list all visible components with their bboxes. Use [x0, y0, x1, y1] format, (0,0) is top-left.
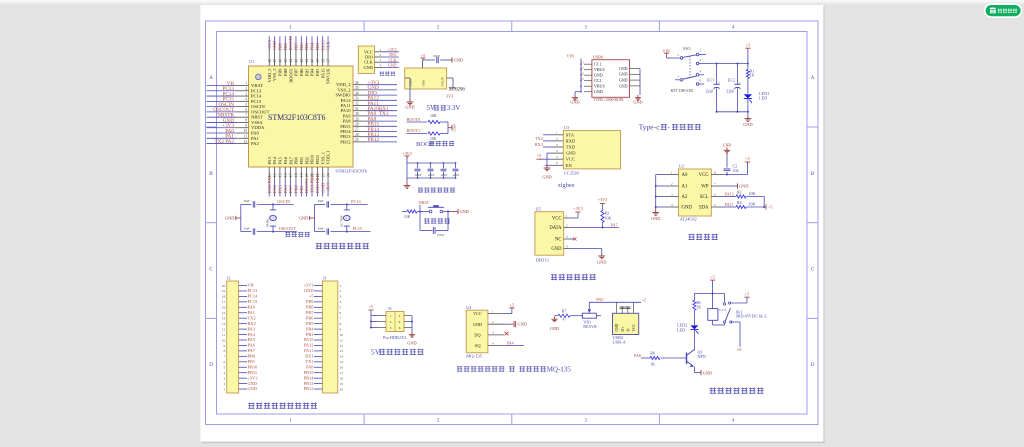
- svg-text:GND: GND: [405, 105, 414, 110]
- svg-text:U2: U2: [679, 164, 684, 169]
- svg-text:40: 40: [311, 59, 315, 63]
- svg-text:GND: GND: [460, 209, 469, 214]
- svg-text:9: 9: [245, 124, 247, 128]
- svg-text:6: 6: [223, 360, 225, 364]
- svg-text:GND: GND: [619, 66, 628, 71]
- svg-text:10K: 10K: [749, 202, 756, 207]
- svg-text:GND: GND: [682, 206, 693, 211]
- svg-text:15: 15: [340, 360, 344, 364]
- svg-text:GND: GND: [566, 151, 576, 156]
- svg-text:PB4: PB4: [310, 42, 315, 51]
- svg-text:17: 17: [222, 300, 226, 304]
- svg-text:VDDA: VDDA: [251, 125, 265, 130]
- svg-text:100nF: 100nF: [437, 234, 445, 237]
- svg-text:16: 16: [222, 306, 226, 310]
- svg-text:PB11: PB11: [248, 370, 258, 375]
- svg-text:SRD-05VDC-SL-C: SRD-05VDC-SL-C: [736, 314, 768, 319]
- svg-text:38: 38: [321, 59, 325, 63]
- svg-text:A: A: [811, 76, 815, 81]
- svg-text:8MHz: 8MHz: [266, 218, 270, 227]
- svg-text:18: 18: [295, 173, 299, 177]
- svg-text:VCC: VCC: [699, 173, 709, 178]
- svg-text:15: 15: [279, 173, 283, 177]
- svg-text:1: 1: [340, 284, 342, 288]
- svg-text:GND: GND: [597, 260, 606, 265]
- svg-text:LED: LED: [677, 328, 685, 333]
- svg-text:CC1: CC1: [594, 62, 601, 67]
- svg-text:37: 37: [327, 59, 331, 63]
- svg-text:3.3V: 3.3V: [447, 105, 461, 112]
- svg-text:17: 17: [289, 173, 293, 177]
- svg-text:PB6: PB6: [299, 42, 304, 51]
- svg-text:BOOT1: BOOT1: [407, 128, 421, 133]
- svg-text:A: A: [209, 76, 213, 81]
- svg-text:5V: 5V: [427, 105, 435, 112]
- svg-text:PA1: PA1: [251, 136, 259, 141]
- svg-text:RXD: RXD: [566, 138, 576, 143]
- svg-text:zigbee: zigbee: [558, 182, 575, 189]
- svg-text:+5: +5: [421, 53, 425, 58]
- svg-text:3: 3: [245, 92, 247, 96]
- svg-text:PA5: PA5: [596, 297, 603, 302]
- svg-text:SWCLK: SWCLK: [326, 68, 331, 84]
- svg-text:PA7: PA7: [248, 348, 256, 353]
- svg-text:28: 28: [355, 123, 359, 127]
- svg-text:17: 17: [340, 371, 344, 375]
- svg-text:100nF: 100nF: [453, 174, 460, 177]
- svg-text:SW1: SW1: [683, 46, 691, 51]
- svg-text:PC15: PC15: [353, 226, 363, 231]
- svg-text:6: 6: [340, 311, 342, 315]
- svg-text:PB12: PB12: [304, 386, 314, 391]
- svg-text:VBUS: VBUS: [594, 84, 605, 89]
- svg-text:PA6: PA6: [634, 353, 641, 358]
- svg-text:PB0: PB0: [294, 156, 299, 164]
- svg-text:8: 8: [245, 119, 247, 123]
- svg-text:GND: GND: [518, 322, 527, 327]
- svg-text:OSCIN: OSCIN: [251, 104, 265, 109]
- svg-text:PB6: PB6: [306, 315, 314, 320]
- svg-text:14: 14: [222, 317, 226, 321]
- svg-text:11: 11: [222, 333, 226, 337]
- svg-text:30pF: 30pF: [244, 226, 251, 230]
- svg-text:PA6: PA6: [283, 156, 288, 164]
- svg-text:10: 10: [222, 338, 226, 342]
- svg-text:1K: 1K: [750, 72, 755, 77]
- svg-text:1: 1: [245, 82, 247, 86]
- svg-text:BOOT0: BOOT0: [288, 35, 293, 51]
- svg-text:11: 11: [244, 135, 248, 139]
- svg-text:+5: +5: [768, 205, 772, 210]
- svg-text:10K: 10K: [605, 216, 612, 221]
- svg-text:A0: A0: [682, 173, 688, 178]
- svg-text:CLK: CLK: [326, 41, 331, 51]
- svg-text:PA1: PA1: [248, 310, 255, 315]
- svg-text:9: 9: [223, 344, 225, 348]
- svg-text:GND: GND: [454, 57, 463, 62]
- svg-text:32.768K: 32.768K: [339, 215, 343, 227]
- svg-text:18: 18: [340, 376, 344, 380]
- svg-text:PA4: PA4: [507, 341, 515, 346]
- svg-text:3: 3: [223, 376, 225, 380]
- svg-text:+5: +5: [710, 274, 714, 279]
- svg-text:GND: GND: [550, 326, 559, 331]
- svg-text:PB8: PB8: [306, 305, 314, 310]
- svg-text:24: 24: [327, 173, 331, 177]
- svg-text:NC: NC: [555, 238, 562, 243]
- svg-text:PA12: PA12: [304, 343, 314, 348]
- svg-text:PA3: PA3: [248, 326, 256, 331]
- svg-text:14: 14: [273, 173, 277, 177]
- svg-text:PA11: PA11: [304, 348, 313, 353]
- svg-text:+: +: [718, 81, 720, 85]
- svg-text:GND: GND: [723, 143, 731, 147]
- svg-text:VB: VB: [248, 283, 254, 288]
- svg-text:PB7: PB7: [294, 42, 299, 51]
- svg-text:TXD: TXD: [566, 145, 576, 150]
- svg-text:+3V3: +3V3: [573, 206, 583, 211]
- svg-text:22uF: 22uF: [726, 90, 735, 94]
- svg-text:GND: GND: [248, 386, 258, 391]
- svg-text:2: 2: [340, 289, 342, 293]
- svg-text:TX2: TX2: [535, 136, 543, 141]
- svg-text:+3V3: +3V3: [267, 39, 272, 50]
- svg-text:PC13: PC13: [248, 288, 259, 293]
- svg-text:OSCOUT: OSCOUT: [279, 226, 297, 231]
- svg-text:PA6: PA6: [248, 343, 256, 348]
- svg-text:EN: EN: [566, 163, 573, 168]
- svg-text:PB9: PB9: [278, 68, 283, 76]
- svg-text:1: 1: [223, 387, 225, 391]
- svg-text:VCC: VCC: [566, 157, 575, 162]
- svg-text:GND: GND: [703, 370, 712, 375]
- svg-text:45: 45: [284, 59, 288, 63]
- svg-text:R4: R4: [737, 201, 742, 205]
- svg-text:PA15: PA15: [320, 40, 325, 51]
- svg-text:15: 15: [222, 311, 226, 315]
- svg-text:AT24C02: AT24C02: [680, 217, 697, 222]
- svg-text:GND: GND: [619, 72, 628, 77]
- svg-text:PB8: PB8: [283, 42, 288, 51]
- svg-text:LED: LED: [759, 95, 767, 100]
- svg-text:PB2: PB2: [304, 157, 309, 165]
- svg-text:7: 7: [223, 355, 225, 359]
- svg-text:VDD_1: VDD_1: [326, 151, 331, 165]
- svg-text:19: 19: [300, 173, 304, 177]
- svg-text:PA12: PA12: [725, 191, 734, 196]
- svg-text:VIN: VIN: [567, 54, 574, 59]
- svg-text:104: 104: [733, 168, 739, 173]
- svg-text:32: 32: [355, 102, 359, 106]
- svg-text:PB4: PB4: [310, 68, 315, 76]
- svg-text:DATA: DATA: [549, 226, 562, 231]
- svg-text:A2: A2: [682, 195, 688, 200]
- svg-text:23: 23: [321, 173, 325, 177]
- svg-text:U4: U4: [466, 305, 472, 310]
- svg-text:GND: GND: [388, 63, 397, 68]
- svg-text:PA15: PA15: [320, 68, 325, 78]
- svg-text:+3V3: +3V3: [303, 283, 314, 288]
- svg-text:5: 5: [245, 103, 247, 107]
- svg-text:PC14: PC14: [351, 199, 361, 204]
- svg-text:RX2: RX2: [248, 321, 256, 326]
- svg-text:PB12: PB12: [368, 137, 380, 143]
- svg-text:10K: 10K: [430, 114, 437, 118]
- svg-text:J1: J1: [323, 276, 327, 281]
- svg-text:GND: GND: [320, 182, 325, 193]
- svg-text:PA6: PA6: [283, 185, 288, 193]
- svg-text:GND: GND: [551, 247, 562, 252]
- svg-text:+3V3: +3V3: [402, 151, 412, 156]
- svg-text:41: 41: [305, 59, 309, 63]
- svg-text:R3: R3: [737, 190, 742, 194]
- svg-text:27: 27: [355, 128, 359, 132]
- svg-text:PB5: PB5: [306, 321, 314, 326]
- svg-text:VCC: VCC: [473, 311, 482, 316]
- svg-text:PC14: PC14: [248, 294, 259, 299]
- svg-text:GND: GND: [453, 124, 457, 132]
- svg-text:26: 26: [355, 133, 359, 137]
- svg-text:RX3 PB11: RX3 PB11: [315, 172, 320, 193]
- svg-text:VIN: VIN: [663, 48, 670, 53]
- svg-text:PB9: PB9: [306, 299, 314, 304]
- svg-text:PA2: PA2: [251, 141, 259, 146]
- svg-text:TX3 PB10: TX3 PB10: [310, 173, 315, 193]
- svg-text:+5: +5: [746, 42, 750, 47]
- svg-text:5: 5: [223, 366, 225, 370]
- svg-text:6: 6: [245, 108, 247, 112]
- svg-text:+: +: [739, 81, 741, 85]
- svg-text:GND: GND: [619, 83, 628, 88]
- svg-text:34: 34: [355, 91, 359, 95]
- svg-text:2: 2: [223, 382, 225, 386]
- svg-text:PB11: PB11: [315, 155, 320, 165]
- svg-text:PB10: PB10: [248, 364, 259, 369]
- svg-text:GND: GND: [570, 100, 579, 105]
- svg-text:14: 14: [340, 355, 344, 359]
- svg-text:20: 20: [305, 173, 309, 177]
- svg-text:GND: GND: [248, 381, 258, 386]
- svg-text:BOOT0: BOOT0: [407, 117, 421, 122]
- svg-text:48: 48: [268, 59, 272, 63]
- svg-text:GND: GND: [272, 40, 277, 51]
- svg-text:EC2: EC2: [728, 77, 735, 82]
- svg-text:VSS_3: VSS_3: [272, 68, 277, 81]
- svg-text:U3: U3: [564, 125, 569, 130]
- svg-text:19: 19: [340, 382, 344, 386]
- svg-text:9: 9: [340, 327, 342, 331]
- svg-text:39: 39: [316, 59, 320, 63]
- svg-text:VCC: VCC: [632, 324, 636, 332]
- svg-text:12: 12: [243, 140, 247, 144]
- svg-text:PB9: PB9: [278, 42, 283, 51]
- svg-text:TX1: TX1: [305, 359, 313, 364]
- svg-text:7: 7: [340, 317, 342, 321]
- svg-text:PA7: PA7: [288, 185, 293, 193]
- svg-text:47: 47: [273, 59, 277, 63]
- svg-text:PB8: PB8: [283, 68, 288, 76]
- svg-text:GND: GND: [594, 89, 603, 94]
- svg-text:PB3: PB3: [315, 68, 320, 76]
- svg-text:WP: WP: [701, 185, 709, 190]
- svg-text:+3V3: +3V3: [248, 375, 259, 380]
- svg-text:PB7: PB7: [306, 310, 314, 315]
- svg-text:BOOT0: BOOT0: [288, 68, 293, 83]
- svg-text:STA: STA: [566, 132, 575, 137]
- svg-text:PA7: PA7: [288, 156, 293, 164]
- svg-text:100nF: 100nF: [415, 174, 422, 177]
- svg-text:RX2: RX2: [535, 142, 543, 147]
- svg-text:Pin HDR2X3: Pin HDR2X3: [383, 335, 406, 340]
- svg-text:PB14: PB14: [304, 375, 315, 380]
- svg-text:VBAT: VBAT: [251, 83, 263, 88]
- svg-text:GND: GND: [304, 288, 314, 293]
- svg-text:VBUS: VBUS: [594, 67, 605, 72]
- svg-text:VCC: VCC: [552, 217, 562, 222]
- svg-text:+3V3: +3V3: [326, 182, 331, 193]
- svg-text:PB12: PB12: [340, 139, 351, 144]
- svg-text:CC2: CC2: [594, 78, 601, 83]
- svg-text:GND: GND: [407, 341, 416, 346]
- svg-text:PA11: PA11: [725, 202, 734, 207]
- svg-text:GND: GND: [409, 79, 413, 87]
- svg-text:PA3: PA3: [267, 156, 272, 164]
- svg-text:+5: +5: [309, 294, 314, 299]
- svg-text:47: 47: [563, 318, 567, 322]
- svg-text:1K: 1K: [650, 361, 655, 366]
- svg-text:36: 36: [355, 81, 359, 85]
- svg-text:VIN: VIN: [422, 80, 426, 87]
- svg-text:VOUT: VOUT: [441, 76, 445, 86]
- svg-text:DHT11: DHT11: [536, 258, 550, 263]
- svg-text:DQ: DQ: [474, 333, 481, 338]
- svg-text:GND: GND: [651, 216, 660, 221]
- svg-text:PC13: PC13: [251, 88, 262, 93]
- svg-text:PA5: PA5: [248, 337, 256, 342]
- svg-text:PA4: PA4: [272, 185, 277, 193]
- svg-text:43: 43: [295, 59, 299, 63]
- svg-text:TX2 PA2: TX2 PA2: [214, 139, 234, 145]
- svg-text:4: 4: [223, 371, 225, 375]
- svg-text:GND: GND: [615, 323, 619, 331]
- svg-text:25: 25: [355, 138, 359, 142]
- svg-text:U1: U1: [249, 59, 254, 64]
- svg-text:VDD_3: VDD_3: [267, 68, 272, 83]
- svg-text:KFT DIP-6X8: KFT DIP-6X8: [671, 89, 694, 93]
- svg-text:44: 44: [289, 59, 293, 63]
- svg-text:100nF: 100nF: [441, 174, 448, 177]
- svg-text:J3: J3: [388, 306, 392, 311]
- svg-text:PB3: PB3: [306, 332, 314, 337]
- svg-text:+5: +5: [745, 291, 749, 296]
- svg-text:3V3: 3V3: [446, 94, 453, 99]
- svg-text:R7: R7: [562, 308, 567, 313]
- svg-text:RX1: RX1: [305, 354, 313, 359]
- svg-text:STM32F103C8T6: STM32F103C8T6: [268, 113, 326, 122]
- svg-text:5: 5: [340, 306, 342, 310]
- svg-text:D+: D+: [621, 327, 625, 332]
- svg-text:CC2530: CC2530: [564, 170, 579, 175]
- svg-text:J2: J2: [227, 276, 231, 281]
- svg-text:10K: 10K: [404, 215, 411, 219]
- svg-text:SDA: SDA: [699, 206, 709, 211]
- svg-text:PB1: PB1: [299, 184, 304, 193]
- svg-text:GND: GND: [633, 100, 642, 105]
- svg-text:PA5: PA5: [278, 185, 283, 193]
- svg-text:GND: GND: [739, 183, 748, 188]
- svg-text:+5: +5: [537, 153, 541, 158]
- svg-text:NRST: NRST: [419, 200, 430, 205]
- svg-text:U5: U5: [536, 206, 541, 211]
- svg-text:PA5: PA5: [278, 156, 283, 164]
- svg-text:GND: GND: [363, 65, 372, 70]
- svg-text:EC1: EC1: [707, 77, 714, 82]
- svg-text:100nF: 100nF: [428, 174, 435, 177]
- svg-text:AQ: AQ: [474, 343, 481, 348]
- svg-text:PA15: PA15: [304, 337, 314, 342]
- svg-text:PA4: PA4: [272, 156, 277, 164]
- svg-text:PB1: PB1: [248, 359, 256, 364]
- svg-text:MQ-135: MQ-135: [466, 354, 483, 359]
- svg-text:+5: +5: [745, 156, 749, 161]
- svg-text:RX2 PA3: RX2 PA3: [267, 175, 272, 193]
- svg-text:PA8: PA8: [306, 364, 314, 369]
- svg-text:2: 2: [245, 87, 247, 91]
- svg-text:USB0: USB0: [593, 54, 603, 59]
- svg-text:OSCIN: OSCIN: [277, 199, 290, 204]
- svg-text:NPN: NPN: [698, 354, 706, 359]
- svg-text:8: 8: [223, 349, 225, 353]
- svg-text:22uF: 22uF: [706, 90, 715, 94]
- svg-text:10: 10: [340, 333, 344, 337]
- svg-text:16: 16: [340, 366, 344, 370]
- svg-text:PC15: PC15: [248, 299, 259, 304]
- svg-text:PB7: PB7: [294, 68, 299, 76]
- svg-text:PB0: PB0: [294, 184, 299, 193]
- svg-text:GND: GND: [473, 322, 482, 327]
- svg-text:NRST: NRST: [251, 115, 263, 120]
- svg-text:A1: A1: [682, 185, 688, 190]
- svg-text:Type-c: Type-c: [639, 123, 661, 132]
- svg-text:PA7: PA7: [611, 222, 618, 227]
- svg-text:+3V3: +3V3: [598, 197, 608, 202]
- svg-text:MQ-135: MQ-135: [547, 365, 572, 373]
- svg-text:GND: GND: [542, 175, 551, 180]
- svg-text:USB-A: USB-A: [613, 340, 627, 345]
- svg-text:4: 4: [340, 300, 342, 304]
- svg-text:18: 18: [222, 295, 226, 299]
- svg-text:PB4: PB4: [306, 326, 314, 331]
- svg-text:30pF: 30pF: [318, 226, 325, 230]
- svg-text:PB5: PB5: [304, 68, 309, 76]
- svg-text:PC15: PC15: [251, 99, 262, 104]
- svg-text:3: 3: [340, 295, 342, 299]
- svg-text:7: 7: [245, 113, 247, 117]
- svg-text:GND: GND: [619, 78, 628, 83]
- svg-text:TX2: TX2: [248, 315, 256, 320]
- svg-text:PB3: PB3: [315, 42, 320, 51]
- svg-text:30pF: 30pF: [244, 199, 251, 203]
- svg-text:D: D: [209, 363, 213, 368]
- svg-text:31: 31: [355, 107, 359, 111]
- svg-text:33: 33: [355, 97, 359, 101]
- svg-text:35: 35: [355, 86, 359, 90]
- svg-text:BOOT1: BOOT1: [304, 177, 309, 193]
- svg-text:8: 8: [340, 322, 342, 326]
- svg-text:SCL: SCL: [700, 195, 709, 200]
- svg-text:TYPEC-2900-BCP8: TYPEC-2900-BCP8: [593, 98, 623, 102]
- svg-text:29: 29: [355, 117, 359, 121]
